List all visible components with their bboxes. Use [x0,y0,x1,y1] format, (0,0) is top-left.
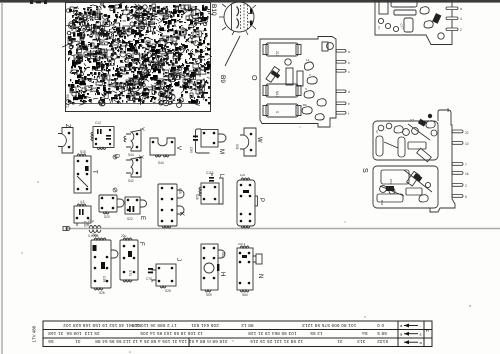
svg-text:S59: S59 [206,293,212,297]
svg-text:S42: S42 [128,179,134,183]
wire connector left end [63,227,70,231]
component L [199,173,223,204]
svg-text:6: 6 [465,195,467,199]
long horizontal wire [66,228,500,230]
svg-text:S: S [305,87,307,91]
svg-text:22: 22 [465,131,469,135]
svg-text:c: c [348,70,350,74]
svg-text:10: 10 [465,142,469,146]
svg-text:B0: B0 [303,103,307,107]
1TV488 vertical label [32,323,37,343]
component D [91,127,114,150]
tiny table text (HTML, rotated 180) [63,323,141,328]
pointer line to B9 [225,36,240,66]
svg-text:a: a [400,323,403,328]
svg-text:S51: S51 [235,144,239,150]
svg-text:T: T [91,170,97,174]
board O pins [336,50,346,115]
svg-text:2: 2 [460,28,462,32]
svg-text:S: S [361,168,368,173]
arrows in table [404,326,418,343]
svg-text:C76: C76 [146,277,152,281]
PCB layout board U : border [66,3,211,112]
svg-text:1μ5: 1μ5 [240,173,245,177]
svg-text:0,5: 0,5 [410,118,415,122]
svg-text:K: K [178,212,184,216]
S interior lower [377,170,432,202]
component G (tall left) [91,238,118,290]
svg-text:W: W [256,137,262,143]
svg-text:P: P [258,198,264,202]
screws [113,155,117,192]
svg-text:S18: S18 [178,188,182,194]
svg-text:V: V [175,146,181,150]
svg-text:C80: C80 [189,147,193,153]
svg-text:21μ: 21μ [92,233,98,237]
svg-text:O: O [250,75,257,81]
component N [237,246,262,292]
component C30 box [74,204,91,226]
board O electrolytic cylinders [263,43,301,117]
PCB board O outline [260,37,336,128]
svg-text:B10: B10 [210,4,217,16]
component Z [58,128,73,154]
svg-text:C: C [309,73,312,77]
svg-text:e: e [348,102,350,106]
svg-text:B9: B9 [219,75,226,83]
svg-text:H: H [219,272,225,276]
svg-text:S20: S20 [104,215,110,219]
tube base B10 [224,2,254,32]
svg-text:-: - [420,324,422,329]
svg-text:4,5: 4,5 [80,200,85,204]
component W [240,128,256,156]
left page border line [1,2,3,354]
cut-off text top edge [30,0,47,4]
svg-text:213: 213 [275,51,279,57]
svg-text:C30: C30 [83,221,87,227]
component G1 (mid box) [99,195,124,214]
svg-text:M13: M13 [275,91,279,98]
svg-text:a: a [400,332,403,337]
component T [74,154,91,193]
svg-text:F: F [138,242,144,246]
top scan edge bar [0,0,500,3]
svg-text:22μ: 22μ [121,234,127,238]
svg-text:b: b [348,61,350,65]
svg-text:S28: S28 [165,289,171,293]
svg-text:f: f [348,112,349,116]
svg-text:S: S [275,111,279,114]
PCB dense component texture [62,2,213,108]
svg-text:C52: C52 [389,179,393,185]
svg-text:s: s [420,332,422,337]
transformer on wire [89,226,101,233]
svg-text:S7: S7 [375,130,379,134]
svg-text:C113: C113 [206,171,214,175]
component H (tall) [201,244,225,292]
board O small parts [266,42,333,86]
svg-text:C12: C12 [95,121,101,125]
svg-text:X7: X7 [377,26,381,30]
component Y [124,130,141,151]
svg-text:C99: C99 [102,276,106,282]
component E [125,197,147,214]
svg-text:S73: S73 [128,270,132,276]
svg-text:S15: S15 [80,150,86,154]
svg-text:13: 13 [306,58,310,62]
svg-text:S62: S62 [221,252,225,258]
svg-text:16: 16 [465,172,469,176]
top right PCB block [375,0,452,45]
component M (cap box) [196,129,227,153]
svg-text:E: E [139,216,145,220]
svg-text:S26: S26 [195,194,199,200]
svg-text:B02: B02 [380,200,384,206]
svg-text:0,5: 0,5 [446,108,450,113]
svg-text:S22: S22 [127,217,133,221]
svg-text:2: 2 [465,184,467,188]
svg-text:S64: S64 [242,293,248,297]
svg-text:a: a [420,340,423,345]
svg-text:4: 4 [460,17,462,21]
component F [120,238,138,282]
svg-text:S44: S44 [158,161,164,165]
svg-text:2x0,4: 2x0,4 [238,242,246,246]
svg-text:7: 7 [465,163,467,167]
svg-text:a: a [348,50,350,54]
svg-text:X: X [137,155,143,159]
svg-text:M: M [426,328,429,333]
component X [126,157,141,177]
svg-text:a: a [460,7,462,11]
svg-text:Y: Y [138,127,144,131]
svg-text:Z: Z [64,124,70,128]
svg-text:M: M [218,149,224,154]
component K [158,184,184,228]
svg-text:TZV 756: TZV 756 [66,94,70,108]
S interior upper [376,121,437,162]
svg-text:J: J [175,258,181,261]
component J [152,264,176,288]
svg-text:L: L [218,174,224,178]
component P [237,178,257,228]
svg-text:N: N [257,274,263,278]
svg-text:S26: S26 [99,291,105,295]
svg-text:d: d [348,90,350,94]
svg-text:S44: S44 [128,153,134,157]
component V [150,138,175,157]
board O teardrop wax caps [302,62,326,120]
